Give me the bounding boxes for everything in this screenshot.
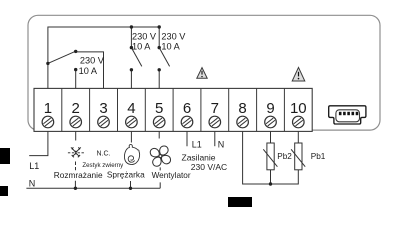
wire terminal6 down (supply L1) xyxy=(186,131,188,146)
svg-text:N: N xyxy=(29,178,36,188)
contact N.O. of relay K1 (terminal 2) xyxy=(74,68,77,71)
USB mini-B connector xyxy=(329,106,366,124)
svg-text:Wentylator: Wentylator xyxy=(152,171,191,180)
relay K2 blade xyxy=(131,48,141,67)
svg-text:2: 2 xyxy=(72,100,80,117)
svg-text:7: 7 xyxy=(211,100,219,117)
junction N line / compressor xyxy=(129,187,132,190)
defrost snowflake symbol xyxy=(68,147,84,157)
svg-text:N.C.: N.C. xyxy=(97,151,111,158)
wire terminal10 down to probe Pb1 xyxy=(297,131,299,143)
screw terminal 4 xyxy=(126,116,138,128)
image artifact block left upper xyxy=(0,148,10,164)
svg-text:10 A: 10 A xyxy=(132,42,151,52)
compressor symbol xyxy=(124,144,139,164)
screw terminal 3 xyxy=(98,116,110,128)
dashed wire defrost to N line xyxy=(74,162,76,189)
svg-text:5: 5 xyxy=(155,100,163,117)
screw terminal 1 xyxy=(42,116,54,128)
thermistor probe Pb1 xyxy=(291,143,305,170)
contact N.C. of relay K1 xyxy=(74,50,77,53)
wire terminal7 down (supply N) xyxy=(214,131,216,146)
wire terminal2 riser (N.O. contact) xyxy=(75,70,77,89)
screw terminal 6 xyxy=(181,116,193,128)
terminal pin numbers 1-10 xyxy=(44,100,307,117)
relay K1 blade (common from terminal 1) xyxy=(48,51,76,63)
wire relay K2 top contact riser to bus xyxy=(130,27,132,48)
svg-text:230 V: 230 V xyxy=(132,32,157,42)
screw terminal 10 xyxy=(293,116,305,128)
screw terminal 9 xyxy=(265,116,277,128)
relay K3 blade xyxy=(159,48,169,67)
warning triangle above terminal 10 xyxy=(292,67,305,81)
rating label relay K2: 230 V 10 A xyxy=(132,32,157,52)
screw terminal 5 xyxy=(153,116,165,128)
svg-text:Pb2: Pb2 xyxy=(277,152,292,161)
wire terminal2 down to defrost heater xyxy=(75,131,77,140)
junction K1 pivot on riser 1 xyxy=(46,62,49,65)
wire probe Pb2 bottom to common xyxy=(270,170,272,184)
svg-text:Sprężarka: Sprężarka xyxy=(107,169,145,179)
svg-text:Rozmrażanie: Rozmrażanie xyxy=(54,170,103,180)
image artifact block left lower xyxy=(0,186,8,196)
wire fan to N line xyxy=(159,167,161,188)
contact K2 top xyxy=(130,46,133,49)
contact K3 bottom xyxy=(158,68,161,71)
svg-text:10 A: 10 A xyxy=(161,42,180,52)
svg-text:6: 6 xyxy=(183,100,191,117)
wire N.C. contact path to terminal 3 xyxy=(76,52,104,89)
svg-text:10 A: 10 A xyxy=(79,66,98,76)
wire compressor to N line xyxy=(130,181,132,188)
svg-text:10: 10 xyxy=(290,100,307,117)
thermistor probe Pb2 xyxy=(263,143,277,170)
wire terminal1 riser and 230V supply bus xyxy=(48,27,159,88)
junction N line / defrost xyxy=(74,187,77,190)
svg-text:1: 1 xyxy=(44,100,52,117)
svg-text:230 V: 230 V xyxy=(161,32,186,42)
wire terminal5 riser (relay K3 bottom contact) xyxy=(158,70,160,89)
rating label relay K1: 230 V 10 A xyxy=(79,55,105,76)
svg-text:9: 9 xyxy=(266,100,274,117)
svg-text:L1: L1 xyxy=(192,139,202,149)
svg-text:3: 3 xyxy=(99,100,107,117)
svg-text:4: 4 xyxy=(127,100,135,117)
svg-text:230 V: 230 V xyxy=(80,55,105,65)
screw terminal 2 xyxy=(70,116,82,128)
wire terminal1 down to L1 input xyxy=(29,131,48,155)
wire terminal9 down to probe Pb2 xyxy=(270,131,272,143)
svg-text:Pb1: Pb1 xyxy=(311,152,326,161)
screw terminal 7 xyxy=(209,116,221,128)
screw terminal 8 xyxy=(237,116,249,128)
wire terminal8 probe common down and across xyxy=(243,131,299,184)
contact K3 top xyxy=(158,46,161,49)
image artifact block bottom center xyxy=(228,197,252,207)
wire relay K3 top contact riser to bus xyxy=(158,27,160,48)
svg-text:L1: L1 xyxy=(29,161,39,171)
wire terminal5 down to fan xyxy=(158,131,160,138)
svg-text:230 V/AC: 230 V/AC xyxy=(191,162,227,172)
rating label relay K3: 230 V 10 A xyxy=(161,32,186,52)
warning triangle above terminals 6-7 xyxy=(197,68,207,79)
contact K2 bottom xyxy=(130,68,133,71)
junction bus / K2 riser xyxy=(130,25,133,28)
wire terminal4 riser (relay K2 bottom contact) xyxy=(130,70,132,89)
svg-text:8: 8 xyxy=(238,100,246,117)
svg-text:N: N xyxy=(218,139,225,149)
junction probe common / Pb2 xyxy=(269,182,272,185)
terminal cell dividers xyxy=(62,88,285,131)
controller device outline xyxy=(28,15,380,130)
fan symbol xyxy=(150,145,171,166)
wire N return line xyxy=(26,187,160,189)
wire terminal4 down to compressor xyxy=(130,131,132,142)
terminal block strip xyxy=(34,88,312,131)
svg-text:Zestyk zwierny: Zestyk zwierny xyxy=(82,162,124,169)
junction bus / K3 riser xyxy=(158,25,161,28)
